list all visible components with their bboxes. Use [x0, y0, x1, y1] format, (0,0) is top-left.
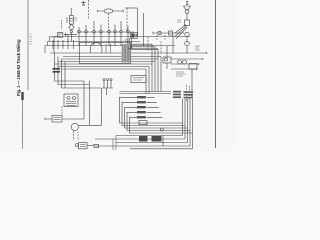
- fuse label text: [176, 72, 186, 76]
- chassis loop wire 5: [130, 117, 193, 133]
- rear harness labels: [173, 91, 181, 93]
- terminal T6: [114, 30, 117, 33]
- solenoid box: [52, 116, 62, 123]
- distributor cap mark: [186, 2, 188, 5]
- instrument cluster panel: [80, 43, 131, 64]
- rear harness riser 5: [192, 99, 194, 149]
- horn connector: [94, 144, 99, 147]
- starter cable dashed: [61, 107, 63, 118]
- light switch S1: [163, 57, 171, 63]
- block riser corner 2: [128, 39, 152, 65]
- right border line: [215, 0, 217, 148]
- wire drop T5: [108, 29, 110, 46]
- wire stub T6: [114, 25, 116, 47]
- lower left margin wire: [22, 92, 24, 149]
- wire ammeter down (dashed): [108, 13, 110, 29]
- spark plug fan wire 1: [175, 25, 187, 34]
- terminal T1: [78, 30, 81, 33]
- dash bus wire 4: [50, 52, 207, 54]
- harness bundle corner 2: [157, 59, 159, 92]
- tail wire label 2: [152, 136, 162, 142]
- horn terminal: [75, 144, 78, 147]
- chassis loop wire 4: [127, 112, 190, 130]
- block riser corner 3: [130, 39, 155, 62]
- generator wire: [186, 37, 188, 42]
- rear harness riser 1: [182, 99, 184, 136]
- distributor rotor: [185, 10, 189, 14]
- dash bus wire 6: [62, 58, 204, 60]
- dimmer switch terminals: [103, 79, 105, 81]
- harness label box: [131, 76, 146, 83]
- coil wire: [186, 13, 188, 20]
- starter motor: [64, 94, 78, 107]
- terminal T5: [108, 30, 111, 33]
- horn wire 2: [58, 84, 89, 86]
- right label text: [195, 46, 200, 50]
- harness bundle corner 3: [154, 62, 156, 92]
- frame riser: [162, 136, 164, 147]
- terminal T4: [100, 30, 103, 33]
- ammeter A1: [104, 9, 113, 13]
- block riser corner 1: [125, 39, 127, 42]
- frame wire 5: [130, 148, 193, 150]
- wire drop T1: [78, 27, 80, 46]
- svg-text:Fig. 1 — 1948-53 Truck Wiring: Fig. 1 — 1948-53 Truck Wiring: [16, 39, 21, 96]
- horn H1: [79, 143, 88, 149]
- stoplight switch wire: [191, 69, 193, 97]
- junction block rung 1: [137, 96, 146, 98]
- wire riser bottom center: [113, 136, 116, 151]
- tail wire label 1: [139, 136, 148, 142]
- wire flag right: [67, 34, 77, 41]
- chassis loop wire 1: [120, 97, 183, 123]
- horn wire 3: [62, 87, 102, 89]
- wire stub T8: [127, 26, 129, 42]
- block riser corner 4: [131, 39, 158, 60]
- fuse block: [189, 64, 197, 70]
- main bus wire 2: [48, 41, 141, 43]
- connector on loop: [139, 120, 147, 124]
- fold line tick text: [30, 34, 33, 44]
- drop wire a: [126, 8, 128, 28]
- cutout relay: [69, 24, 74, 30]
- junction block rung 2: [137, 101, 146, 103]
- rear harness riser 2: [184, 99, 186, 139]
- harness bundle corner 6: [145, 69, 147, 94]
- wire flag left: [50, 37, 58, 42]
- battery terminal mark: [82, 1, 86, 5]
- harness bundle corner 5: [148, 67, 150, 94]
- horn wires down (dashed pair): [73, 131, 75, 141]
- junction cross mark: [64, 33, 67, 36]
- junction flag box: [58, 33, 63, 38]
- block feed: [126, 28, 128, 32]
- harness U loop: [89, 81, 101, 125]
- frame wire 3: [116, 142, 188, 144]
- dash feed dashes: [147, 37, 149, 52]
- harness bundle corner 4: [151, 64, 153, 92]
- spark plug fan wire 3: [176, 27, 187, 39]
- regulator terminal: [70, 30, 72, 32]
- gauge marks: [106, 44, 111, 53]
- wire stub T7: [120, 21, 122, 46]
- drop wire b: [137, 8, 139, 37]
- terminal T2: [85, 30, 88, 33]
- spark plug fan wire 2: [175, 26, 187, 37]
- junction block rung 4: [137, 111, 146, 113]
- lighting fuse dashed lead: [60, 20, 62, 29]
- horn wire right: [87, 145, 94, 147]
- harness bundle corner 1: [160, 57, 162, 92]
- wire from ammeter right: [113, 10, 124, 12]
- junction block rung 5: [137, 116, 146, 118]
- horn relay wire: [153, 32, 184, 34]
- dash bus wire 7: [58, 61, 155, 63]
- junction dot: [130, 46, 132, 48]
- battery positive cable (dashed, top): [88, 0, 90, 19]
- drop wire c: [143, 13, 145, 46]
- horn button: [71, 123, 78, 130]
- rear harness riser 3: [187, 99, 189, 143]
- ignition switch terminal block: [130, 32, 137, 38]
- wire drop T2: [85, 25, 87, 46]
- headlamp feed ticks: [53, 40, 74, 49]
- strip feed wires: [147, 97, 163, 117]
- main bus wire 1: [54, 36, 190, 38]
- cluster hatched block: [122, 44, 131, 63]
- ignition coil: [184, 20, 189, 26]
- frame wire 4: [95, 145, 190, 147]
- junction block rung 3: [137, 106, 146, 108]
- horn relay terminal: [158, 31, 161, 34]
- body harness top wires: [120, 91, 172, 93]
- terminal T3: [93, 30, 96, 33]
- speedometer loop: [91, 43, 102, 54]
- feed wire short bus: [128, 48, 158, 50]
- dash bus wire 10: [62, 68, 198, 70]
- wire stub T4: [100, 25, 102, 47]
- distributor funnel: [184, 6, 191, 10]
- voltage regulator VR: [70, 8, 72, 16]
- terminal T7: [120, 30, 123, 33]
- wire to ammeter left: [98, 10, 105, 12]
- regulator label text: [67, 17, 68, 23]
- main bus wire 3: [45, 45, 175, 47]
- generator G: [185, 32, 189, 36]
- horn relay: [169, 31, 173, 35]
- foot switch wire: [78, 124, 101, 126]
- wire from solenoid: [45, 118, 52, 120]
- lower left margin connector blob: [21, 92, 23, 100]
- terminal T8: [127, 30, 130, 33]
- terminal row bus: [77, 31, 134, 33]
- rear harness riser 4: [189, 99, 191, 146]
- stoplight dashes: [186, 85, 188, 101]
- page fold line: [27, 0, 29, 90]
- horn wire 1: [55, 81, 85, 119]
- wire stub T3: [93, 21, 95, 46]
- chassis loop wire 3: [125, 107, 188, 128]
- dash bus wire 9: [58, 66, 149, 68]
- condenser C1: [53, 68, 61, 70]
- coil label: [177, 20, 182, 22]
- dash bus wire 5: [63, 56, 161, 58]
- beam indicator lamps: [178, 60, 182, 64]
- dash bus wire 8: [55, 63, 200, 65]
- tail lamp terminal: [160, 128, 163, 131]
- water temp gauge: [185, 42, 190, 46]
- chassis loop wire 2: [122, 102, 185, 125]
- frame wire 2: [95, 138, 185, 140]
- bus left risers: [45, 37, 54, 54]
- top distribution wire: [125, 7, 138, 9]
- left harness risers: [55, 53, 66, 88]
- frame wire 1: [116, 135, 183, 137]
